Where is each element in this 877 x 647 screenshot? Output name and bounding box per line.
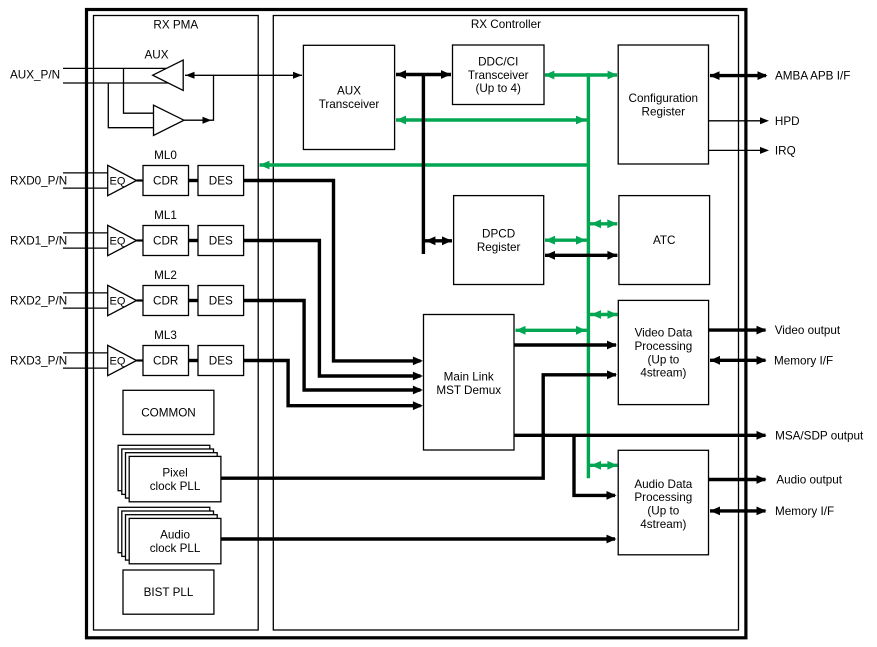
wire EQ to CDR ML2 — [137, 299, 144, 301]
Main Link MST Demux block — [424, 315, 515, 451]
RX Controller block — [273, 16, 738, 631]
wire RXD2 input pair top — [63, 292, 108, 294]
svg-text:(Up to 4): (Up to 4) — [475, 82, 521, 95]
svg-text:ML3: ML3 — [154, 329, 177, 342]
svg-text:ML0: ML0 — [154, 149, 177, 162]
svg-text:RXD3_P/N: RXD3_P/N — [10, 355, 67, 368]
wire Audio clock PLL output — [221, 537, 615, 540]
green bus: DPCD Register to trunk — [545, 238, 587, 241]
svg-text:COMMON: COMMON — [141, 407, 196, 420]
wire RXD3 input pair bottom — [63, 367, 108, 369]
svg-text:Processing: Processing — [634, 491, 692, 504]
Audio Data Processing block — [618, 450, 708, 555]
svg-text:RXD0_P/N: RXD0_P/N — [10, 175, 67, 188]
aux transmit buffer (right-pointing triangle) — [154, 105, 185, 135]
wire vertical drop from AUX/DDC line to DPCD — [422, 75, 425, 255]
wire DES ML0 output to MST Demux input 1 — [244, 181, 421, 361]
CDR block ML3 — [143, 346, 189, 376]
svg-text:RX Controller: RX Controller — [471, 18, 541, 31]
green bus: trunk to ATC — [590, 222, 617, 225]
BIST PLL block — [123, 570, 214, 614]
svg-text:4stream): 4stream) — [640, 518, 686, 531]
svg-text:CDR: CDR — [153, 355, 178, 368]
svg-text:Transceiver: Transceiver — [319, 98, 380, 111]
wire DES ML2 output to MST Demux input 3 — [244, 301, 421, 391]
wire aux loop from bottom line down to output buffer input — [108, 83, 153, 128]
svg-text:DES: DES — [209, 295, 233, 308]
wire RXD0 input pair top — [63, 172, 108, 174]
ATC block — [619, 196, 710, 285]
svg-text:Audio Data: Audio Data — [634, 478, 692, 491]
wire EQ to CDR ML3 — [137, 359, 144, 361]
wire aux loop from top line down to output buffer input — [124, 68, 154, 113]
svg-text:RXD2_P/N: RXD2_P/N — [10, 295, 67, 308]
wire Video output — [709, 328, 766, 331]
green bus: MST Demux to trunk — [516, 329, 587, 332]
wire Audio Memory I/F (bidirectional) — [710, 509, 766, 512]
svg-text:Processing: Processing — [634, 340, 692, 353]
svg-text:Register: Register — [477, 241, 521, 254]
svg-text:CDR: CDR — [153, 175, 178, 188]
svg-text:EQ: EQ — [110, 236, 126, 248]
svg-text:EQ: EQ — [110, 356, 126, 368]
wire DES ML3 output to MST Demux input 4 — [244, 361, 421, 406]
green bus: AUX Transceiver branch — [396, 118, 587, 121]
Video Data Processing block — [618, 300, 708, 404]
svg-text:Audio: Audio — [160, 529, 190, 542]
CDR block ML1 — [143, 226, 189, 256]
Pixel clock PLL block stack — [118, 445, 210, 490]
svg-text:MSA/SDP output: MSA/SDP output — [775, 429, 864, 442]
svg-text:Register: Register — [642, 106, 686, 119]
svg-text:(Up to: (Up to — [647, 353, 679, 366]
wire SDP branch down into Audio Data Processing — [574, 435, 615, 495]
wire RXD3 input pair top — [63, 352, 108, 354]
svg-text:ATC: ATC — [653, 234, 676, 247]
svg-text:Video Data: Video Data — [635, 327, 693, 340]
svg-text:CDR: CDR — [153, 295, 178, 308]
wire IRQ output — [709, 149, 768, 151]
DES block ML2 — [198, 286, 244, 316]
svg-text:AUX: AUX — [144, 49, 168, 62]
svg-text:Main Link: Main Link — [444, 371, 494, 384]
svg-text:ML2: ML2 — [154, 269, 177, 282]
wire AUX Transceiver to DDC/CI Transceiver — [396, 73, 451, 76]
svg-text:Audio output: Audio output — [776, 474, 842, 487]
wire into DPCD Register (bidirectional) — [425, 239, 452, 242]
Audio clock PLL block stack — [118, 507, 210, 552]
DDC/CI Transceiver block — [453, 45, 545, 105]
wire RXD2 input pair bottom — [63, 307, 108, 309]
svg-text:AMBA APB I/F: AMBA APB I/F — [775, 70, 850, 83]
wire CDR to DES ML0 — [189, 179, 199, 182]
green bus: DDC/CI to Configuration Register — [545, 73, 617, 76]
RX PMA block — [94, 16, 259, 631]
outer chip boundary frame — [87, 10, 746, 638]
AUX Transceiver block — [303, 45, 394, 149]
wire CDR to DES ML1 — [189, 239, 199, 242]
DES block ML0 — [198, 166, 244, 196]
svg-text:Pixel: Pixel — [162, 467, 187, 480]
svg-text:EQ: EQ — [110, 296, 126, 308]
wire Audio output — [709, 478, 766, 481]
svg-text:(Up to: (Up to — [647, 505, 679, 518]
svg-text:clock PLL: clock PLL — [150, 542, 201, 555]
svg-text:Memory I/F: Memory I/F — [774, 354, 833, 367]
wire MSA/SDP output from MST Demux — [514, 434, 766, 437]
svg-text:clock PLL: clock PLL — [150, 480, 201, 493]
CDR block ML2 — [143, 286, 189, 316]
wire RXD0 input pair bottom — [63, 187, 108, 189]
svg-text:Video output: Video output — [775, 324, 841, 337]
wire Video Memory I/F (bidirectional) — [710, 359, 766, 362]
wire MST Demux to Video Data Processing — [514, 343, 616, 346]
wire AUX_P/N bottom line — [63, 82, 169, 84]
aux receive buffer (left-pointing triangle) — [153, 60, 184, 90]
DES block ML3 — [198, 346, 244, 376]
wire aux bidirectional line to AUX Transceiver — [185, 74, 302, 76]
green control bus trunk vertical — [587, 73, 590, 478]
svg-text:DDC/CI: DDC/CI — [478, 55, 518, 68]
svg-text:RXD1_P/N: RXD1_P/N — [10, 235, 67, 248]
wire CDR to DES ML3 — [189, 359, 199, 362]
green bus: trunk to Video Data Processing — [590, 313, 618, 316]
COMMON block — [123, 390, 214, 434]
equalizer EQ triangle ML2 — [108, 285, 137, 315]
svg-text:DES: DES — [209, 175, 233, 188]
Configuration Register block — [618, 45, 708, 164]
svg-text:DPCD: DPCD — [482, 227, 515, 240]
svg-text:Transceiver: Transceiver — [468, 69, 529, 82]
green bus: branch into RX PMA — [260, 163, 588, 166]
wire aux transmit output up to transceiver line — [184, 75, 214, 120]
DPCD Register block — [454, 196, 544, 285]
svg-text:4stream): 4stream) — [640, 367, 686, 380]
svg-text:RX PMA: RX PMA — [153, 18, 198, 31]
svg-text:MST Demux: MST Demux — [436, 384, 501, 397]
CDR block ML0 — [143, 166, 189, 196]
svg-text:DES: DES — [209, 355, 233, 368]
equalizer EQ triangle ML0 — [108, 165, 137, 195]
equalizer EQ triangle ML3 — [108, 345, 137, 375]
svg-text:HPD: HPD — [775, 115, 800, 128]
wire AUX_P/N top line — [63, 67, 166, 69]
svg-text:BIST PLL: BIST PLL — [144, 586, 194, 599]
wire AMBA APB I/F (bidirectional) — [710, 74, 766, 77]
wire CDR to DES ML2 — [189, 299, 199, 302]
svg-text:DES: DES — [209, 235, 233, 248]
wire RXD1 input pair top — [63, 232, 108, 234]
equalizer EQ triangle ML1 — [108, 225, 137, 255]
wire EQ to CDR ML0 — [137, 179, 144, 181]
svg-text:IRQ: IRQ — [775, 145, 796, 158]
svg-text:EQ: EQ — [110, 176, 126, 188]
DES block ML1 — [198, 226, 244, 256]
svg-text:CDR: CDR — [153, 235, 178, 248]
wire DPCD Register to ATC (bidirectional) — [545, 254, 617, 257]
svg-text:Configuration: Configuration — [629, 92, 699, 105]
svg-text:Memory I/F: Memory I/F — [775, 505, 834, 518]
wire Pixel clock PLL output — [221, 375, 616, 478]
wire HPD output — [709, 120, 768, 122]
wire DES ML1 output to MST Demux input 2 — [244, 241, 421, 377]
green bus: trunk to Audio Data Processing — [590, 464, 617, 467]
svg-text:AUX_P/N: AUX_P/N — [10, 69, 60, 82]
svg-text:AUX: AUX — [337, 84, 361, 97]
wire RXD1 input pair bottom — [63, 247, 108, 249]
wire EQ to CDR ML1 — [137, 239, 144, 241]
svg-text:ML1: ML1 — [154, 209, 177, 222]
